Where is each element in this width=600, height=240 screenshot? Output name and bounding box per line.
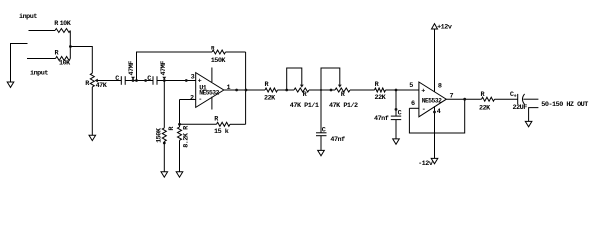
wire C2 to opamp pin3 [157, 80, 196, 82]
wire pot1 to pot2 [309, 89, 335, 91]
ground under 8.2K [176, 172, 183, 177]
svg-text:C: C [322, 127, 326, 135]
wire 47nf to ground [320, 136, 322, 151]
capacitor C2 47MF [147, 75, 157, 85]
svg-text:+: + [421, 88, 425, 96]
svg-text:4: 4 [437, 108, 441, 116]
svg-text:47K P1/2: 47K P1/2 [329, 102, 358, 110]
wire 15k feedback [180, 123, 217, 125]
wire pin2 [180, 99, 196, 101]
wire 8.2K to ground [179, 140, 181, 172]
ground under 47nf [318, 150, 325, 155]
power +12v line [434, 29, 436, 92]
node pot1 left [285, 89, 288, 92]
node pin3 stub [185, 79, 188, 82]
pot2 bypass loop [321, 68, 342, 90]
capacitor C1 47MF [115, 75, 125, 85]
wire input shield [11, 44, 28, 83]
svg-text:150K: 150K [211, 57, 227, 65]
resistor R 15k [214, 115, 230, 135]
svg-text:3: 3 [191, 74, 195, 82]
ground under 47nf2 [393, 139, 400, 144]
node output a [235, 89, 238, 92]
node 150K bias tap [163, 79, 166, 82]
node output junction [463, 98, 466, 101]
svg-text:50-150 HZ OUT: 50-150 HZ OUT [541, 101, 588, 109]
wiper arrow 47K [95, 79, 122, 83]
svg-text:-: - [422, 106, 426, 114]
arrow +12v [432, 24, 438, 29]
svg-text:22K: 22K [375, 94, 387, 102]
power -12v line [434, 106, 436, 158]
node pin4 [433, 111, 436, 114]
resistor R 150K bias [156, 126, 176, 143]
wire 47nf2 to ground [395, 120, 397, 139]
svg-text:+12v: +12v [437, 24, 452, 32]
wire pin6 feedback [409, 99, 464, 133]
wire 22K to pin5 [386, 89, 419, 91]
node feedback tap [135, 79, 138, 82]
node 47nF2 tap [395, 89, 398, 92]
svg-text:47K P1/1: 47K P1/1 [290, 102, 319, 110]
label 47MF C1 [128, 61, 136, 80]
wire opamp1 output [224, 89, 265, 91]
label +12v [437, 24, 452, 32]
op-amp U1 NE5532 [190, 68, 231, 110]
wire out ground stub [529, 108, 539, 122]
label 50-150 HZ OUT [541, 101, 588, 109]
wire feedback top [137, 52, 213, 81]
svg-text:2: 2 [190, 94, 194, 102]
wire input 2 [27, 58, 56, 60]
node pin2 junction [178, 123, 181, 126]
pot1 bypass loop [287, 68, 304, 90]
svg-text:C: C [115, 75, 119, 83]
capacitor C+ 22UF [510, 91, 527, 112]
resistor R 22K c [479, 91, 494, 113]
node below 150K [163, 142, 166, 145]
node C1 out [132, 79, 135, 82]
ground under 47K pot [89, 135, 96, 140]
svg-text:-: - [198, 96, 202, 104]
wire 47nf2 drop [395, 90, 397, 116]
svg-text:150K: 150K [156, 127, 164, 143]
wire input 1 [29, 30, 56, 32]
svg-text:47MF: 47MF [160, 61, 168, 76]
input label 1 [19, 13, 37, 21]
svg-text:8: 8 [438, 83, 442, 91]
wire feedback right vertical [245, 52, 247, 124]
label -12v [418, 160, 433, 168]
wire 150K to ground [163, 141, 165, 171]
arrow -12v [431, 158, 438, 163]
wire 15k to output [230, 123, 246, 125]
wire 22K to cap [495, 98, 518, 100]
wire junction to pot [70, 47, 92, 74]
svg-text:NE5532: NE5532 [199, 90, 219, 97]
resistor R 22K a [264, 81, 278, 102]
wire 22K to pot1 [278, 89, 295, 91]
svg-text:-12v: -12v [418, 160, 433, 168]
wire R1 to R2 vertical [69, 31, 71, 59]
resistor R 8.2K [178, 125, 191, 148]
wire opamp2 output [446, 98, 481, 100]
node on 47nf2 [395, 108, 398, 111]
svg-text:47nf: 47nf [374, 115, 389, 123]
label 47MF C2 [160, 61, 168, 80]
ground input shield [7, 82, 14, 87]
svg-text:47nf: 47nf [330, 136, 345, 144]
op-amp U1b NE5532 [409, 82, 453, 117]
wire cap tap drop [320, 90, 322, 133]
svg-text:22UF: 22UF [513, 104, 528, 112]
ground output [525, 121, 532, 126]
svg-text:47K: 47K [96, 82, 108, 90]
ground under 150K [161, 172, 168, 177]
wire cap to out [523, 98, 538, 100]
svg-text:22K: 22K [264, 94, 276, 102]
svg-text:C: C [398, 110, 402, 118]
svg-text:10K: 10K [59, 59, 71, 67]
node junction inputs [69, 45, 72, 48]
node cap tap [320, 89, 322, 91]
svg-text:NE5532: NE5532 [422, 97, 442, 104]
svg-text:C: C [147, 75, 151, 83]
svg-text:input: input [30, 70, 48, 78]
input label 2 [30, 70, 48, 78]
wire pin2 drop [179, 100, 181, 128]
node pot2 left [330, 89, 333, 92]
node C2 in [144, 79, 147, 82]
wire pot to ground [91, 87, 93, 135]
svg-text:6: 6 [411, 100, 415, 108]
label 150K [211, 57, 227, 65]
wire C1 to C2 [125, 80, 153, 82]
potentiometer 47K P1/2 [329, 88, 358, 110]
resistor R 22K b [375, 81, 387, 102]
svg-text:22K: 22K [479, 104, 491, 112]
wire pin6 stub [409, 107, 419, 109]
wire bias drop [163, 81, 165, 128]
resistor R1 10K [54, 20, 72, 33]
potentiometer 47K P1/1 [290, 88, 319, 110]
node output b [245, 89, 248, 92]
svg-text:1: 1 [227, 84, 231, 92]
capacitor C 47nf mid [316, 127, 345, 144]
svg-text:5: 5 [409, 82, 413, 90]
svg-text:8.2K R: 8.2K R [183, 125, 191, 148]
svg-text:15 k: 15 k [214, 128, 229, 136]
wire pot2 to 22K [350, 89, 375, 91]
capacitor C 47nf right [374, 110, 402, 124]
wire feedback top right [226, 51, 246, 53]
potentiometer R 47K input [85, 73, 108, 90]
resistor R2 10K [55, 50, 72, 68]
svg-text:47MF: 47MF [128, 61, 136, 76]
resistor R 150K feedback [211, 45, 226, 54]
svg-text:input: input [19, 13, 37, 21]
